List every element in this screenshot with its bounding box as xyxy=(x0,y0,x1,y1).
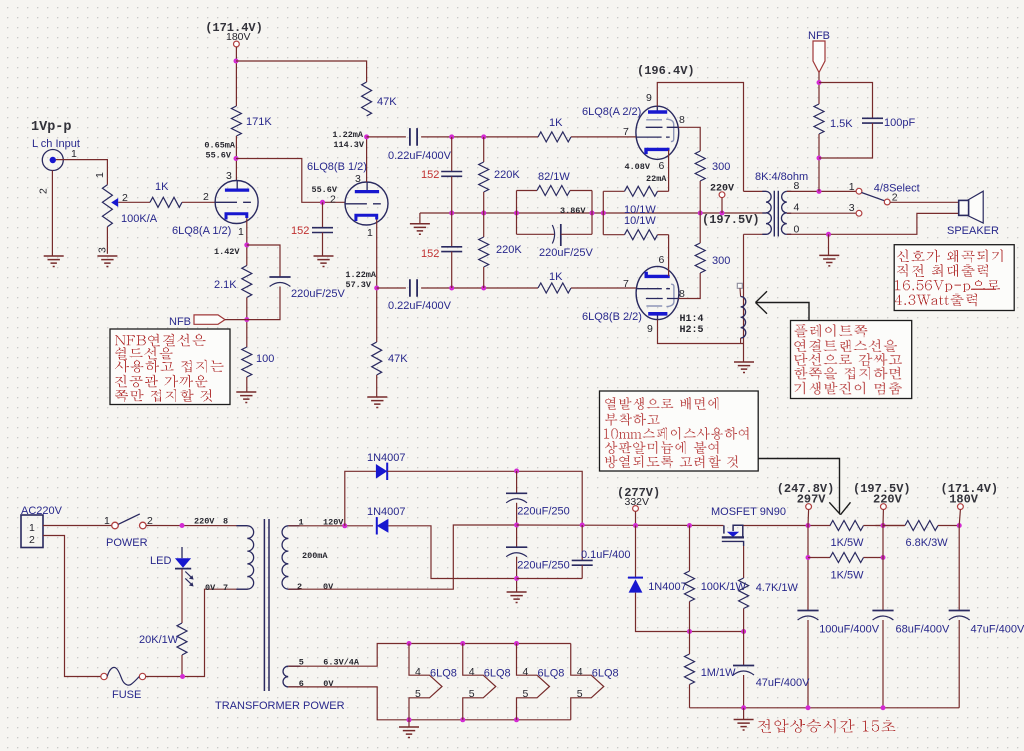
svg-text:10/1W: 10/1W xyxy=(624,215,656,227)
switch 4/8Select contact 1 xyxy=(856,188,862,194)
junction ground rail A xyxy=(741,705,746,710)
wire 297V vertical xyxy=(807,526,809,611)
wire V4 pin8 to 300 xyxy=(679,273,701,299)
svg-text:180V: 180V xyxy=(949,493,979,507)
wire LED to 20K xyxy=(181,569,183,623)
resistor 1.5K xyxy=(814,104,824,134)
svg-text:1: 1 xyxy=(367,227,373,239)
wire to C 0.22uF upper xyxy=(367,136,406,138)
switch POWER blade xyxy=(118,514,140,524)
ground OPT tap0 xyxy=(819,255,839,266)
wire 82 box left side xyxy=(516,191,518,235)
wire 20K to fuse node xyxy=(181,655,183,677)
svg-text:0.1uF/400: 0.1uF/400 xyxy=(581,549,631,561)
korean line buchakago xyxy=(605,413,660,426)
svg-text:3: 3 xyxy=(355,173,361,185)
capacitor 0.22uF/400V upper xyxy=(410,128,417,146)
ground 47K cathode xyxy=(367,397,387,408)
svg-text:220uF/25V: 220uF/25V xyxy=(539,247,593,259)
wire jack to pot xyxy=(56,160,107,185)
wire 300 lower to rail xyxy=(699,213,701,243)
wire C 220uF/25V bottom xyxy=(247,287,280,320)
junction supply node xyxy=(234,59,239,64)
korean line bangyeol xyxy=(605,455,738,468)
wire OPT bottom lead down xyxy=(743,234,745,343)
junction C5 top xyxy=(514,469,519,474)
choke winding wrapped xyxy=(741,297,746,339)
svg-text:47uF/400V: 47uF/400V xyxy=(971,624,1024,636)
resistor 100 xyxy=(242,347,252,377)
pentode V3 6LQ8(A 2/2) xyxy=(636,106,679,159)
wire 100K top lead xyxy=(689,526,691,572)
diode D1 1N4007 xyxy=(376,463,387,480)
svg-text:5: 5 xyxy=(469,688,475,700)
junction bias rail A xyxy=(687,629,692,634)
wire upper rail y137 xyxy=(421,136,538,138)
korean line voltage rise time xyxy=(758,719,896,733)
ground filter caps xyxy=(507,592,527,603)
capacitor 152 grid xyxy=(312,228,333,233)
power transformer HV secondary xyxy=(282,526,288,589)
OPT core xyxy=(774,191,778,237)
wire OPT tap8 to switch xyxy=(787,190,856,192)
wire B+ rail to 1K/5W xyxy=(744,525,831,527)
pointer arrow to 1K/5W xyxy=(758,459,850,515)
wire C152 to ground xyxy=(322,233,324,256)
svg-text:3.86V: 3.86V xyxy=(560,206,586,216)
wire V3 cathode down xyxy=(668,150,670,191)
wire 100K bottom lead xyxy=(689,602,691,632)
svg-text:100: 100 xyxy=(256,353,274,365)
junction heater top 2 xyxy=(460,641,465,646)
junction NFB bottom node xyxy=(817,156,822,161)
potentiometer 100K/A xyxy=(102,185,112,227)
terminal 180V supply xyxy=(234,41,240,47)
capacitor 152 upper xyxy=(441,172,462,177)
annotation box max output xyxy=(894,245,1014,311)
korean line peullateu xyxy=(794,324,867,337)
korean line 10mm spacer xyxy=(604,427,748,440)
svg-text:47K: 47K xyxy=(388,353,408,365)
svg-text:8K:4/8ohm: 8K:4/8ohm xyxy=(755,171,808,183)
net flag NFB left xyxy=(194,315,225,324)
switch 4/8Select contact 3 xyxy=(856,210,862,216)
svg-text:8: 8 xyxy=(679,114,685,126)
wire 10/1W left vertical xyxy=(602,191,604,234)
wire jack shield to ground xyxy=(51,170,53,255)
pot wiper arrow xyxy=(111,198,118,207)
wire tap0 ground stem xyxy=(828,234,830,255)
wire 1K to V4 grid xyxy=(571,287,636,289)
svg-text:55.6V: 55.6V xyxy=(205,151,231,161)
svg-text:0V: 0V xyxy=(205,583,216,593)
svg-text:1: 1 xyxy=(94,172,106,178)
junction 180V node xyxy=(957,523,962,528)
junction 220V node xyxy=(881,523,886,528)
svg-text:3: 3 xyxy=(97,247,109,253)
wire 68uF bottom xyxy=(882,620,884,708)
heater connector 3 heater 6LQ8 xyxy=(517,644,550,720)
wire doubler riser to D1 xyxy=(345,471,376,526)
junction 1K/5W row A xyxy=(806,555,811,560)
wire 4.7K bottom lead xyxy=(743,609,745,632)
junction heater bottom 3 xyxy=(514,717,519,722)
svg-text:1: 1 xyxy=(104,515,110,527)
korean line gisaeng xyxy=(794,382,902,395)
wire 47uF right bottom xyxy=(958,620,960,708)
resistor 1K V4 grid xyxy=(538,283,571,293)
junction heater bottom 1 xyxy=(407,717,412,722)
wire 152 upper top xyxy=(451,137,453,171)
wire 1K/5W to 6.8K xyxy=(876,525,905,527)
svg-text:0.22uF/400V: 0.22uF/400V xyxy=(388,150,452,162)
svg-text:2: 2 xyxy=(330,194,336,206)
svg-text:LED: LED xyxy=(150,555,171,567)
terminal 220V OPT xyxy=(719,192,725,198)
svg-text:152: 152 xyxy=(291,225,309,237)
svg-text:MOSFET 9N90: MOSFET 9N90 xyxy=(711,506,786,518)
wire 152 upper bottom xyxy=(451,176,453,213)
resistor 1K input xyxy=(150,197,182,207)
wire 82 box right side xyxy=(591,191,593,235)
svg-text:4: 4 xyxy=(469,666,475,678)
junction NFB top node xyxy=(817,80,822,85)
svg-text:(197.5V): (197.5V) xyxy=(702,213,760,227)
switch 4/8Select blade xyxy=(862,193,885,201)
svg-text:20K/1W: 20K/1W xyxy=(139,634,179,646)
svg-text:47uF/400V: 47uF/400V xyxy=(756,677,810,689)
korean line jikjeon xyxy=(897,264,988,277)
svg-text:1K/5W: 1K/5W xyxy=(831,569,865,581)
wire cap box bottom left xyxy=(517,233,555,235)
wire 82 box top left xyxy=(517,190,538,192)
resistor 10/1W upper xyxy=(625,186,658,196)
korean line swildeu xyxy=(115,347,173,360)
resistor 82/1W xyxy=(537,186,570,196)
korean line danseon xyxy=(794,353,902,366)
wire 180V stem xyxy=(959,510,960,526)
wire NFB to 100pF xyxy=(819,83,873,119)
LED xyxy=(175,547,194,587)
wire 47uF bias top lead xyxy=(743,632,745,666)
wire C5 top lead xyxy=(516,471,518,493)
svg-text:2.1K: 2.1K xyxy=(214,279,237,291)
ground C152 grid xyxy=(314,256,334,267)
svg-text:22mA: 22mA xyxy=(646,174,667,184)
wire 82 box top right xyxy=(570,190,592,192)
triode V1 6LQ8(A 1/2) xyxy=(215,181,258,224)
svg-text:4: 4 xyxy=(523,666,529,678)
svg-text:1: 1 xyxy=(238,226,244,238)
wire OPT tap4 to switch xyxy=(787,212,856,214)
wire 1K to V1 grid xyxy=(182,201,215,203)
junction heater top 1 xyxy=(407,641,412,646)
svg-text:1.5K: 1.5K xyxy=(830,118,853,130)
resistor 300 lower xyxy=(695,243,705,273)
wire bottom ground rail xyxy=(690,707,960,709)
svg-text:1K: 1K xyxy=(155,181,169,193)
junction mid rail C xyxy=(514,211,519,216)
svg-text:220uF/250: 220uF/250 xyxy=(517,506,570,518)
junction 1K/5W row B xyxy=(881,555,886,560)
resistor 47K plate xyxy=(362,82,372,116)
capacitor 68uF/400V xyxy=(872,610,893,612)
svg-text:SPEAKER: SPEAKER xyxy=(947,225,999,237)
svg-text:300: 300 xyxy=(712,255,730,267)
svg-text:220K: 220K xyxy=(494,169,520,181)
wire 10/1W upper left xyxy=(603,190,624,192)
wire NFB flag down xyxy=(818,73,820,105)
svg-text:68uF/400V: 68uF/400V xyxy=(896,624,950,636)
OPT primary winding lower xyxy=(766,213,771,234)
wire D1 output rail xyxy=(387,471,582,525)
junction upper rail B xyxy=(481,134,486,139)
svg-text:6: 6 xyxy=(659,254,665,266)
wire 47K to ground xyxy=(376,375,378,397)
svg-text:200mA: 200mA xyxy=(302,551,328,561)
svg-text:220V: 220V xyxy=(194,517,215,527)
capacitor 220uF/250 lower xyxy=(506,546,527,548)
svg-text:220V: 220V xyxy=(873,493,903,507)
wire 332V stem xyxy=(635,511,637,525)
svg-text:H2:5: H2:5 xyxy=(680,325,704,336)
resistor 1K/5W lower xyxy=(830,553,864,563)
resistor 1K/5W upper xyxy=(830,521,864,531)
diode D2 1N4007 xyxy=(377,517,389,534)
pentode V4 6LQ8(B 2/2) xyxy=(636,266,679,319)
wire cap box bottom right xyxy=(561,233,592,235)
junction upper rail A xyxy=(449,134,454,139)
wire 220V terminal stem xyxy=(721,198,723,213)
korean line 4.3Watt xyxy=(895,293,977,306)
diode D3 1N4007 xyxy=(628,578,643,593)
svg-text:1.42V: 1.42V xyxy=(214,247,240,257)
heater connector 2 heater 6LQ8 xyxy=(463,644,496,720)
wire bias rail xyxy=(636,593,744,632)
wire 47K to V2 plate xyxy=(366,136,368,182)
junction mid rail E xyxy=(601,211,606,216)
junction ground rail cap node xyxy=(514,576,519,581)
junction mid rail D xyxy=(590,211,595,216)
svg-text:6.8K/3W: 6.8K/3W xyxy=(906,537,949,549)
wire 180V vertical xyxy=(958,526,960,611)
svg-text:2: 2 xyxy=(203,191,209,203)
svg-text:6LQ8(A 1/2): 6LQ8(A 1/2) xyxy=(172,225,231,237)
wire 220K lower bottom xyxy=(483,267,485,288)
OPT primary winding upper xyxy=(766,191,771,213)
wire switch to speaker xyxy=(890,201,959,203)
capacitor 47uF/400V bias xyxy=(733,665,754,667)
resistor 100K/1W xyxy=(685,571,695,602)
svg-text:3: 3 xyxy=(849,202,855,214)
junction mid rail F xyxy=(698,211,703,216)
wire D2 to ground rail xyxy=(388,526,516,579)
underline euro xyxy=(971,289,996,290)
wire V1 cathode down xyxy=(246,218,248,265)
heater connector 4 heater 6LQ8 xyxy=(571,644,604,720)
junction mid rail A xyxy=(449,211,454,216)
svg-text:FUSE: FUSE xyxy=(112,689,141,701)
wire fuse to transformer 0V xyxy=(146,589,248,676)
wire 1M top lead xyxy=(689,632,691,655)
korean line sinhoga xyxy=(897,250,1003,263)
svg-text:171K: 171K xyxy=(246,116,272,128)
svg-text:6LQ8(A 2/2): 6LQ8(A 2/2) xyxy=(582,106,641,118)
svg-text:152: 152 xyxy=(421,169,439,181)
svg-text:1K: 1K xyxy=(549,271,563,283)
wire 100pF bottom xyxy=(819,123,873,158)
svg-text:(196.4V): (196.4V) xyxy=(637,64,695,78)
svg-text:2: 2 xyxy=(29,534,35,546)
resistor 220K lower xyxy=(479,237,489,267)
svg-text:220uF/25V: 220uF/25V xyxy=(291,288,345,300)
korean line sangpan xyxy=(605,441,718,454)
wire V4 plate to OPT xyxy=(658,320,744,344)
svg-text:100pF: 100pF xyxy=(884,117,915,129)
svg-text:100K/A: 100K/A xyxy=(121,213,158,225)
svg-text:300: 300 xyxy=(712,161,730,173)
wire 220K upper top xyxy=(483,137,485,162)
choke pickup square xyxy=(737,283,742,288)
wire OPT primary top lead xyxy=(744,190,767,192)
svg-text:9: 9 xyxy=(646,92,652,104)
wire pot to ground xyxy=(106,227,108,254)
svg-text:1: 1 xyxy=(29,522,35,534)
wire B- mid rail xyxy=(517,524,724,527)
wire 1K/5W upper right lead xyxy=(864,525,884,527)
junction LED branch xyxy=(180,523,185,528)
junction lower rail A xyxy=(449,286,454,291)
svg-text:82/1W: 82/1W xyxy=(538,171,570,183)
korean line 16.56Vpp xyxy=(895,280,1000,292)
svg-text:7: 7 xyxy=(623,126,629,138)
wire mid rail ground stem xyxy=(419,213,421,223)
svg-text:5: 5 xyxy=(577,688,583,700)
korean line yeongyeol xyxy=(794,339,897,351)
wire AC pin1 to switch xyxy=(43,525,112,527)
terminal 220V xyxy=(881,504,887,510)
wire 300 upper to rail xyxy=(699,181,701,213)
junction lower rail B xyxy=(481,286,486,291)
capacitor 220uF/25V cathode xyxy=(269,276,290,278)
svg-text:4.7K/1W: 4.7K/1W xyxy=(756,582,799,594)
svg-text:6LQ8: 6LQ8 xyxy=(430,668,457,680)
svg-text:1N4007: 1N4007 xyxy=(367,452,406,464)
svg-text:H1:4: H1:4 xyxy=(680,314,704,325)
wire ground rail to 0.1uF xyxy=(517,578,583,580)
capacitor 47uF/400V right xyxy=(949,610,970,612)
wire gate to 4.7K xyxy=(743,546,745,578)
pointer arrow to choke xyxy=(756,291,810,320)
triode V2 6LQ8(B 1/2) xyxy=(345,182,388,225)
wire 220K lower top xyxy=(483,213,485,237)
wire HV pin1 to D2 xyxy=(288,525,373,527)
ground pot xyxy=(97,256,117,267)
terminal 332V xyxy=(633,506,639,512)
svg-text:1Vp-p: 1Vp-p xyxy=(31,120,72,135)
korean line hanjjok xyxy=(794,367,901,380)
ground choke xyxy=(734,362,754,373)
junction ground rail C xyxy=(881,705,886,710)
wire 6.8K to 180V node xyxy=(938,525,959,527)
svg-text:3: 3 xyxy=(226,170,232,182)
junction ground rail B xyxy=(806,705,811,710)
svg-text:8: 8 xyxy=(794,180,800,192)
svg-text:152: 152 xyxy=(421,248,439,260)
resistor 47K cathode xyxy=(372,342,382,375)
wire R100 to ground xyxy=(246,377,248,392)
junction bias rail B xyxy=(741,629,746,634)
wire 10/1W upper right xyxy=(658,190,669,192)
svg-text:8: 8 xyxy=(223,517,228,527)
svg-text:0.22uF/400V: 0.22uF/400V xyxy=(388,300,452,312)
capacitor 220uF/250 upper xyxy=(506,492,527,494)
junction 0.1uF node xyxy=(580,523,585,528)
capacitor 152 lower xyxy=(441,247,462,252)
switch 4/8Select contact 2 xyxy=(884,199,890,205)
wire plate lead ground stem xyxy=(743,344,745,362)
wire 10/1W lower left xyxy=(603,234,624,236)
svg-text:1: 1 xyxy=(71,148,77,160)
OPT secondary winding upper xyxy=(782,191,787,213)
wire 0.1uF bottom lead xyxy=(581,565,583,578)
svg-text:6: 6 xyxy=(659,160,665,172)
junction mid rail cap node xyxy=(514,523,519,528)
svg-text:1.22mA: 1.22mA xyxy=(345,270,377,280)
wire 0.1uF top lead xyxy=(581,525,583,560)
wire 10/1W lower right xyxy=(658,234,669,236)
wire 47uF bias bottom lead xyxy=(743,675,745,708)
svg-text:NFB: NFB xyxy=(169,316,191,328)
korean line sayonghago xyxy=(115,360,224,373)
svg-text:1K/5W: 1K/5W xyxy=(831,537,865,549)
transistor MOSFET 9N90 xyxy=(722,525,744,546)
wire AC pin2 to fuse xyxy=(43,536,101,677)
power transformer heater secondary xyxy=(283,666,288,687)
svg-text:1N4007: 1N4007 xyxy=(367,506,406,518)
wire OPT tap0 to speaker xyxy=(787,213,959,234)
wire supply to R 47K xyxy=(236,61,367,82)
wire 171K to V1 plate xyxy=(235,136,237,181)
wire choke top stub xyxy=(739,288,742,296)
annotation box plate wrap xyxy=(791,321,912,399)
ground R100 xyxy=(236,392,256,403)
power transformer lead stubs xyxy=(236,526,300,687)
svg-text:180V: 180V xyxy=(226,31,251,43)
svg-text:1N4007: 1N4007 xyxy=(648,581,687,593)
resistor 171K xyxy=(231,106,241,136)
junction fuse node xyxy=(180,674,185,679)
terminal 297V xyxy=(806,504,812,510)
wire to C 0.22uF lower xyxy=(377,287,406,289)
wire OPT primary bottom lead xyxy=(744,233,767,235)
wire lower rail y288 xyxy=(421,287,538,289)
svg-text:7: 7 xyxy=(223,583,228,593)
svg-text:4: 4 xyxy=(577,666,583,678)
wire 297V stem xyxy=(807,510,810,526)
junction heater bottom 2 xyxy=(460,717,465,722)
junction doubler node xyxy=(342,523,347,528)
junction V2 grid node xyxy=(320,200,325,205)
svg-text:4: 4 xyxy=(794,202,800,214)
wire 220V stem xyxy=(882,510,884,526)
wire ground rail stem xyxy=(743,708,745,719)
wire choke bottom stub xyxy=(740,338,742,344)
junction NFB tap xyxy=(817,189,822,194)
svg-text:57.3V: 57.3V xyxy=(345,280,371,290)
junction V2 cathode node xyxy=(374,286,379,291)
svg-text:2: 2 xyxy=(38,188,50,194)
